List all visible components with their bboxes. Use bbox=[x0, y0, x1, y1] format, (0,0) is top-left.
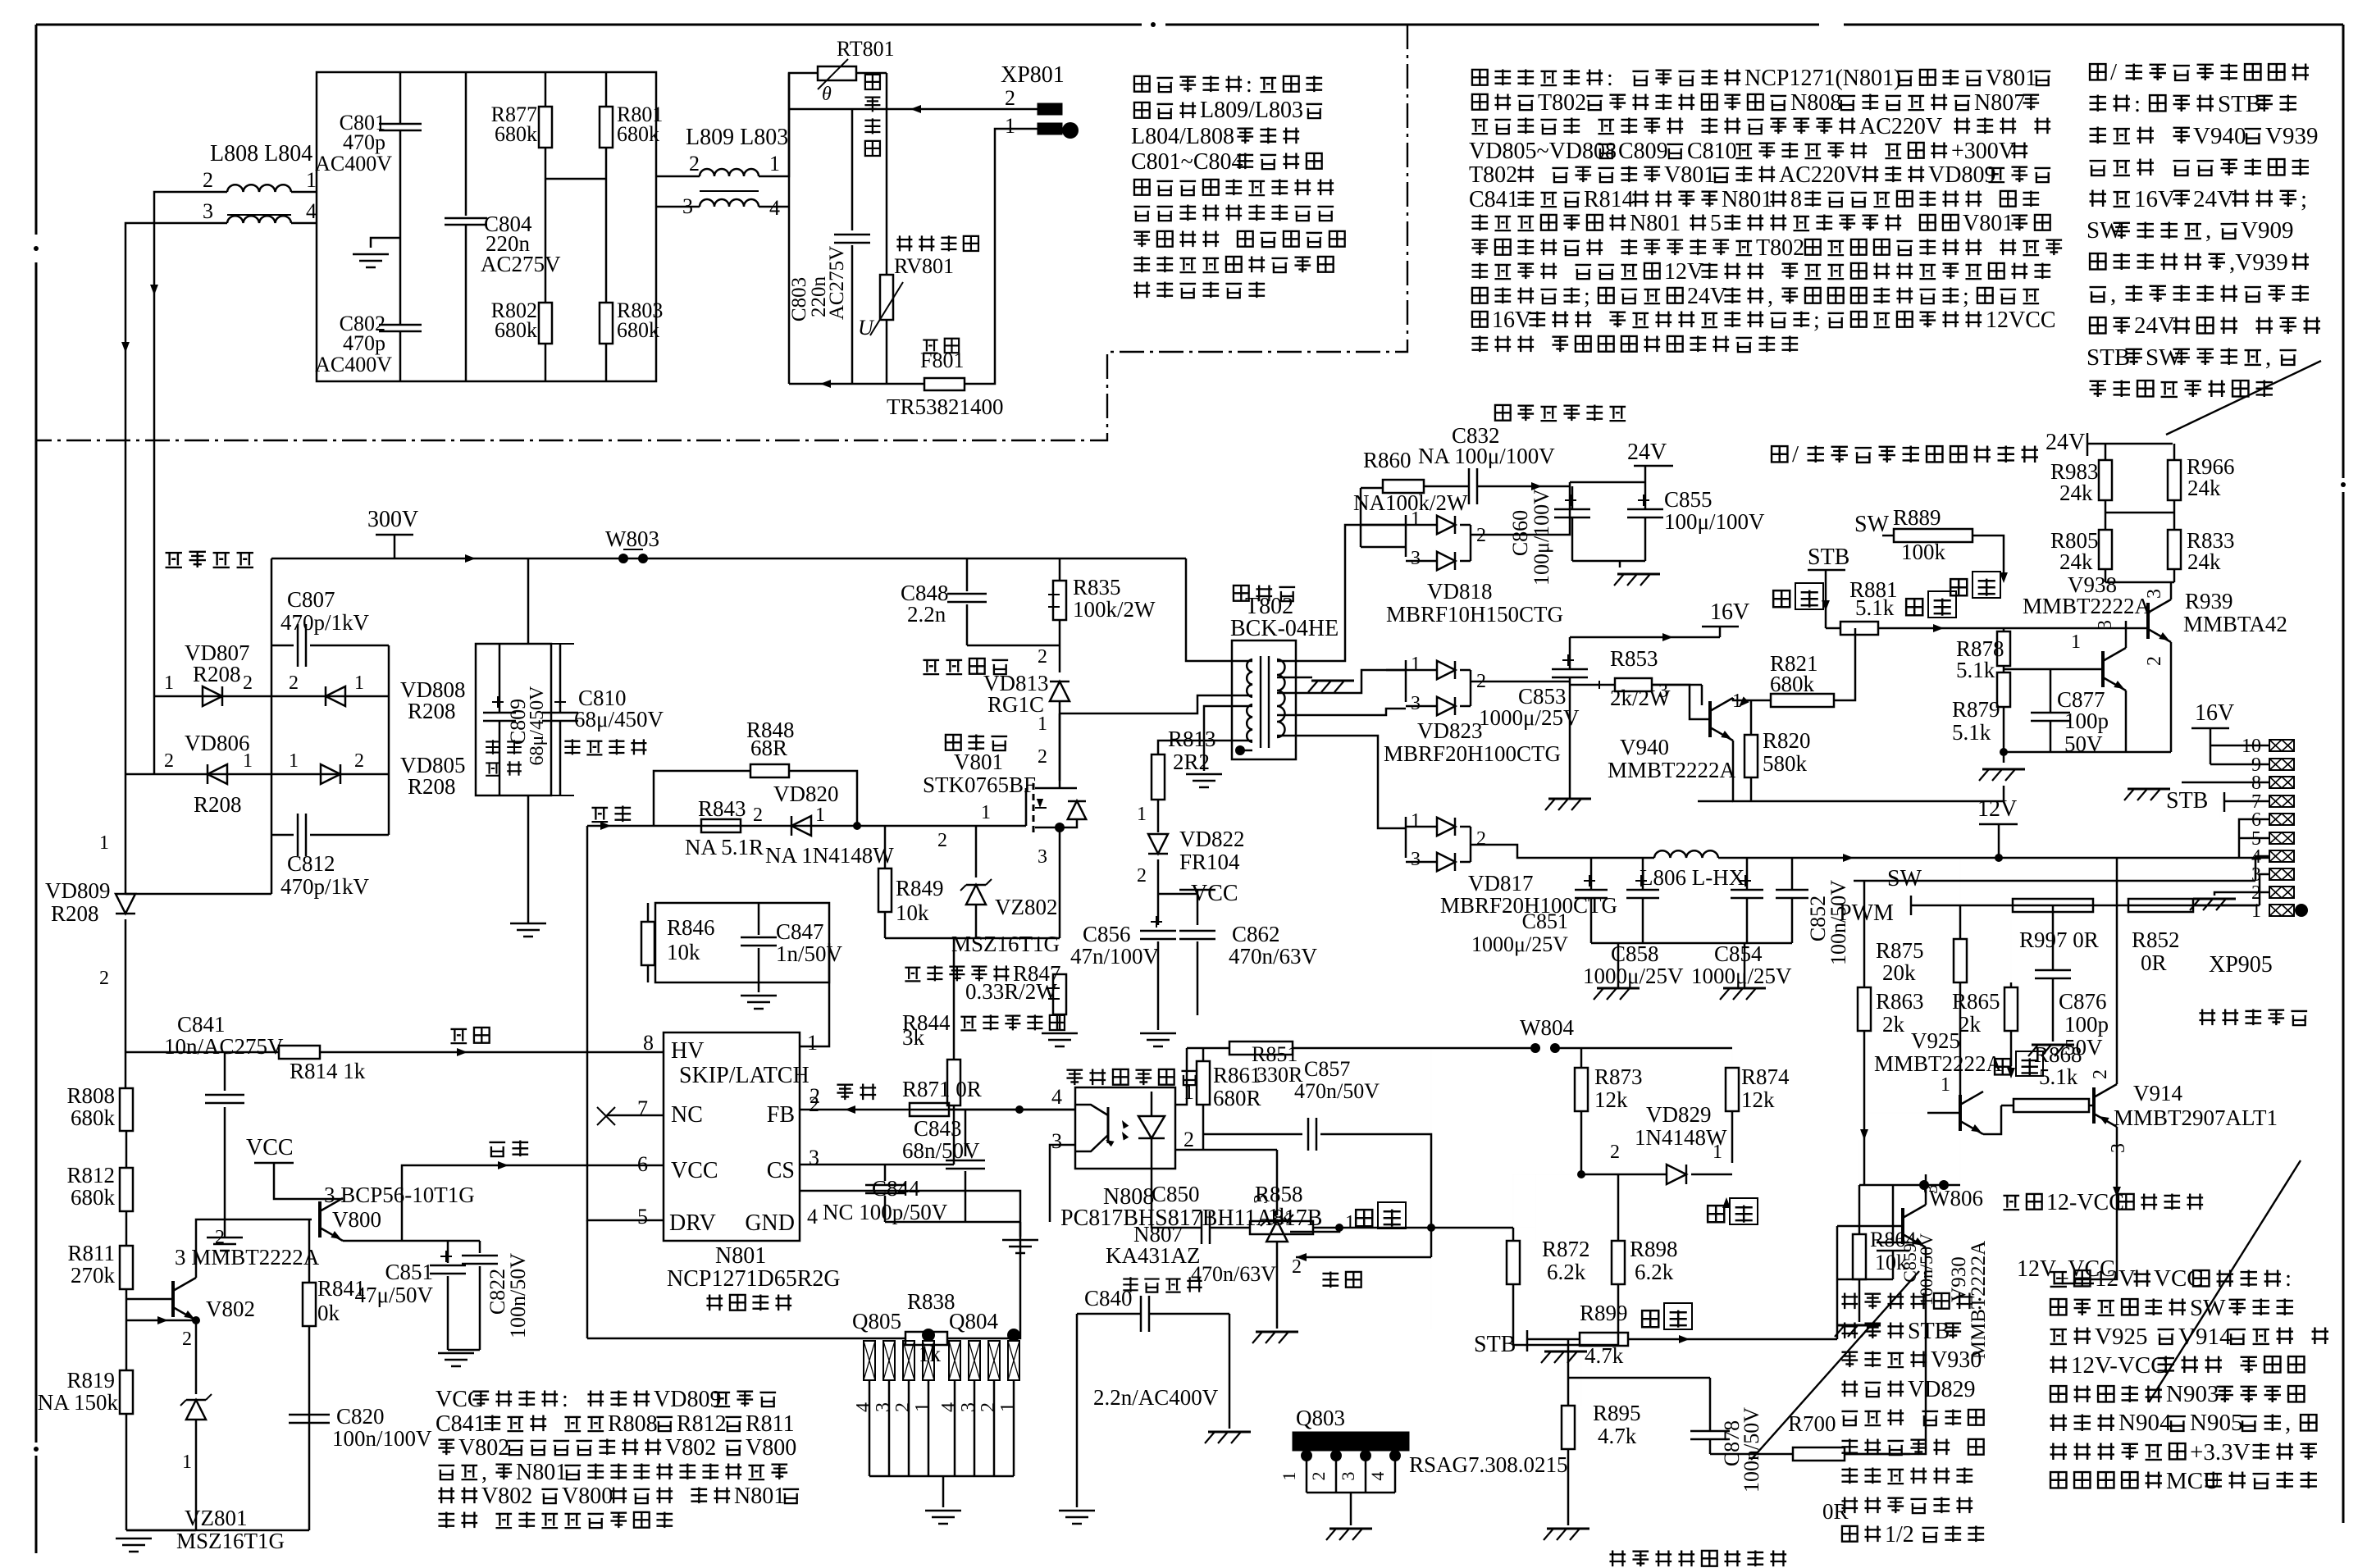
svg-text:VZ802: VZ802 bbox=[995, 895, 1058, 919]
svg-text:R852: R852 bbox=[2132, 928, 2180, 952]
svg-text:12k: 12k bbox=[1594, 1087, 1628, 1112]
svg-text:2: 2 bbox=[243, 672, 253, 694]
current limiting resistor label 限流电阻 bbox=[864, 75, 880, 156]
svg-text:680k: 680k bbox=[617, 122, 659, 146]
wire V938 collector bbox=[2125, 621, 2128, 648]
svg-text:16V: 16V bbox=[2195, 700, 2234, 726]
svg-text:100n/50V: 100n/50V bbox=[506, 1253, 530, 1338]
svg-text:12V-VCC: 12V-VCC bbox=[2071, 1352, 2167, 1379]
svg-text:3: 3 bbox=[1921, 1184, 1942, 1194]
svg-text:V940: V940 bbox=[1620, 735, 1669, 759]
svg-text:C855: C855 bbox=[1664, 487, 1713, 512]
wire V939 collector to R833 bbox=[2170, 582, 2173, 599]
svg-text:5.1k: 5.1k bbox=[1855, 595, 1895, 620]
wire pin4 bbox=[949, 1109, 1075, 1111]
svg-text:R838: R838 bbox=[907, 1289, 955, 1314]
svg-text:,: , bbox=[481, 1460, 487, 1485]
svg-text:/: / bbox=[1792, 441, 1799, 467]
svg-text:;: ; bbox=[1963, 284, 1969, 309]
svg-text:2: 2 bbox=[1137, 865, 1147, 887]
svg-text:R873: R873 bbox=[1594, 1064, 1643, 1089]
svg-text:R208: R208 bbox=[51, 901, 99, 926]
svg-text:V801: V801 bbox=[1963, 211, 2014, 236]
svg-text:2: 2 bbox=[753, 805, 763, 826]
wire pin3 bbox=[1050, 1145, 1075, 1222]
svg-text:VD809: VD809 bbox=[654, 1387, 721, 1412]
svg-text:N904: N904 bbox=[2118, 1410, 2172, 1436]
svg-text:68R: 68R bbox=[750, 736, 787, 760]
svg-text:3 BCP56-10T1G: 3 BCP56-10T1G bbox=[324, 1183, 475, 1207]
svg-text:5.1k: 5.1k bbox=[1952, 720, 1991, 745]
svg-text:R814: R814 bbox=[1584, 187, 1634, 212]
svg-text:VD822: VD822 bbox=[1179, 827, 1245, 851]
wire V940 collector to R821 node bbox=[1733, 698, 1751, 700]
svg-text:,: , bbox=[2285, 1410, 2291, 1436]
svg-text:R813: R813 bbox=[1168, 727, 1216, 751]
svg-text:VD809: VD809 bbox=[45, 878, 111, 903]
wire L803 pin4 to RT801 branch bbox=[759, 206, 789, 208]
svg-text:C810: C810 bbox=[1687, 139, 1737, 164]
svg-text:C844: C844 bbox=[872, 1176, 920, 1201]
gate drive wire bbox=[587, 825, 1026, 827]
wire V800 emitter rail bbox=[343, 1240, 480, 1242]
svg-text:1: 1 bbox=[1038, 713, 1047, 735]
svg-text:L804/L808: L804/L808 bbox=[1131, 124, 1234, 149]
svg-text:470n/63V: 470n/63V bbox=[1229, 944, 1318, 969]
hot-cold isolation boundary (dash-dot) bbox=[36, 25, 1407, 440]
wire V930 base bbox=[1837, 1225, 1903, 1228]
svg-text:470n/63V: 470n/63V bbox=[1191, 1262, 1276, 1286]
chassis ground C853 bbox=[1548, 798, 1591, 800]
svg-text:1: 1 bbox=[997, 1402, 1019, 1412]
svg-text:4: 4 bbox=[938, 1402, 960, 1412]
svg-text:1000μ/25V: 1000μ/25V bbox=[1471, 932, 1568, 956]
label 二次整流滤波 bbox=[1495, 404, 1626, 421]
label R844 过电流取样 bbox=[902, 1010, 1065, 1035]
svg-text:C812: C812 bbox=[287, 851, 335, 876]
svg-text:C851: C851 bbox=[1522, 909, 1568, 933]
wire box to L809 pin2 bbox=[656, 175, 700, 178]
wire AC2 to bridge bottom bbox=[125, 893, 271, 896]
ground bottom left bbox=[126, 1529, 196, 1532]
svg-text:/: / bbox=[2110, 59, 2118, 85]
svg-text:V802: V802 bbox=[665, 1435, 716, 1461]
svg-text:R811: R811 bbox=[67, 1241, 115, 1265]
Q805/Q804 common rail bbox=[869, 1475, 1014, 1478]
svg-text:12V: 12V bbox=[2095, 1265, 2136, 1292]
svg-text:1: 1 bbox=[99, 832, 109, 854]
svg-text:10k: 10k bbox=[667, 940, 700, 964]
wire V914 emitter up to 12V bbox=[2116, 858, 2118, 1084]
text paragraph: switching power supply description bbox=[1472, 66, 2050, 91]
svg-text:;: ; bbox=[2301, 186, 2307, 212]
switch mark near V925 bbox=[1995, 1059, 2010, 1074]
svg-text:2: 2 bbox=[1005, 86, 1015, 110]
svg-text:,: , bbox=[1767, 284, 1773, 309]
svg-text:VD817: VD817 bbox=[1468, 871, 1534, 896]
svg-text:R849: R849 bbox=[896, 876, 944, 900]
svg-text:N801: N801 bbox=[1630, 211, 1681, 236]
300V bus wire bbox=[271, 558, 1186, 560]
svg-text:RG1C: RG1C bbox=[987, 692, 1044, 717]
svg-text:MMBT2222A: MMBT2222A bbox=[2023, 594, 2151, 618]
svg-text:24k: 24k bbox=[2187, 549, 2221, 574]
svg-text:2: 2 bbox=[354, 750, 364, 772]
wire L804 pin4 to box bbox=[291, 222, 317, 225]
svg-text:V930: V930 bbox=[1931, 1347, 1982, 1373]
callout diagonal to V914 bbox=[2149, 1160, 2301, 1402]
svg-text:1: 1 bbox=[807, 1031, 818, 1055]
bridge AC node rail bbox=[153, 696, 156, 774]
svg-text:N903: N903 bbox=[2166, 1381, 2219, 1407]
label 供电 bbox=[489, 1140, 528, 1156]
svg-text:8: 8 bbox=[643, 1031, 654, 1055]
svg-text:2: 2 bbox=[978, 1402, 999, 1412]
svg-text:47n/100V: 47n/100V bbox=[1070, 944, 1160, 969]
svg-text:V801: V801 bbox=[1986, 66, 2036, 91]
svg-text:0k: 0k bbox=[317, 1301, 340, 1325]
emitter/C877 bottom rail bbox=[2004, 751, 2171, 754]
varistor RV801 bbox=[896, 235, 978, 251]
capacitor C810 (filter) bbox=[542, 712, 578, 714]
svg-text:V800: V800 bbox=[746, 1435, 796, 1461]
svg-text:8: 8 bbox=[1790, 187, 1802, 212]
svg-text:R872: R872 bbox=[1542, 1237, 1590, 1261]
svg-text:3: 3 bbox=[873, 1402, 894, 1412]
svg-text:3: 3 bbox=[809, 1146, 819, 1169]
wire box to L803 pin3 bbox=[656, 206, 700, 208]
text paragraph: VCC regulator description bbox=[436, 1387, 776, 1412]
svg-text:1: 1 bbox=[815, 805, 825, 826]
switch mark V930 collector bbox=[1708, 1206, 1724, 1222]
svg-text:R208: R208 bbox=[408, 699, 456, 723]
wire V925 emitter bbox=[1983, 1105, 2001, 1134]
svg-text:,: , bbox=[2110, 281, 2116, 308]
switch mark top bbox=[1950, 579, 1967, 595]
svg-text:1000μ/25V: 1000μ/25V bbox=[1479, 705, 1580, 730]
svg-text:6.2k: 6.2k bbox=[1635, 1260, 1674, 1284]
svg-text:470p: 470p bbox=[343, 331, 385, 355]
svg-text:1: 1 bbox=[164, 672, 174, 694]
svg-text:C809: C809 bbox=[1618, 139, 1668, 164]
svg-text:2: 2 bbox=[2090, 1069, 2111, 1079]
ground of main filter bbox=[510, 923, 546, 925]
svg-text:2: 2 bbox=[1476, 828, 1486, 850]
svg-text:3: 3 bbox=[1338, 1472, 1358, 1481]
svg-text:1: 1 bbox=[1411, 508, 1421, 530]
pin8 ground bbox=[2182, 782, 2269, 784]
svg-text:TR53821400: TR53821400 bbox=[887, 394, 1004, 419]
svg-text:270k: 270k bbox=[71, 1263, 116, 1288]
page border left bbox=[35, 25, 38, 235]
svg-text:470p/1kV: 470p/1kV bbox=[280, 610, 370, 635]
filter cap box bbox=[476, 644, 551, 795]
SW wire bbox=[1854, 880, 2255, 882]
svg-text:1: 1 bbox=[243, 750, 253, 772]
svg-text:2: 2 bbox=[289, 672, 299, 694]
ground rail R872/R898 bbox=[1513, 1344, 1618, 1347]
svg-text:5: 5 bbox=[637, 1205, 648, 1228]
svg-text:3: 3 bbox=[1411, 849, 1421, 870]
svg-text:3: 3 bbox=[958, 1402, 979, 1412]
wire sampling rail to R872 bbox=[1431, 1227, 1513, 1229]
svg-text:T802: T802 bbox=[1469, 162, 1517, 188]
svg-text:C862: C862 bbox=[1232, 922, 1280, 946]
diode VD818 a bbox=[1437, 516, 1455, 534]
svg-text:16V: 16V bbox=[1710, 599, 1749, 625]
wire R853 to V940 base bbox=[1652, 684, 1702, 686]
svg-text:R846: R846 bbox=[667, 915, 715, 940]
svg-text:R853: R853 bbox=[1610, 646, 1658, 671]
svg-text:4: 4 bbox=[807, 1205, 818, 1228]
svg-text:θ: θ bbox=[822, 84, 832, 105]
capacitor C854 bbox=[1731, 889, 1763, 891]
svg-text:C850: C850 bbox=[1152, 1182, 1200, 1206]
label 激励 bbox=[591, 805, 631, 822]
svg-text::: : bbox=[2134, 91, 2141, 117]
svg-text:MSZ16T1G: MSZ16T1G bbox=[176, 1529, 285, 1553]
wire pin1 up bbox=[1175, 1048, 1187, 1105]
svg-text:R863: R863 bbox=[1876, 989, 1924, 1014]
svg-text:300V: 300V bbox=[367, 507, 418, 532]
svg-text:R889: R889 bbox=[1893, 505, 1941, 530]
svg-text:100k: 100k bbox=[1901, 540, 1946, 564]
T802 phase dot bbox=[1235, 745, 1245, 755]
wire R872/R898 column bbox=[1430, 1257, 1432, 1329]
svg-text:C803: C803 bbox=[788, 277, 810, 321]
svg-text:1: 1 bbox=[182, 1452, 192, 1473]
svg-text:5.1k: 5.1k bbox=[2039, 1064, 2078, 1089]
wire V938 emitter bbox=[2125, 691, 2128, 752]
optocoupler N808 box bbox=[1075, 1087, 1175, 1169]
svg-text:C841: C841 bbox=[177, 1012, 226, 1037]
wire V939 base rail bbox=[2126, 620, 2148, 622]
svg-text:580k: 580k bbox=[1763, 751, 1808, 776]
label 待机降压控制电路 bbox=[1609, 1550, 1786, 1566]
svg-text:4: 4 bbox=[769, 196, 780, 220]
svg-text:Q804: Q804 bbox=[949, 1309, 998, 1333]
svg-text:1/2: 1/2 bbox=[1885, 1522, 1914, 1547]
svg-text:MMBT2222A: MMBT2222A bbox=[1608, 758, 1736, 782]
svg-text:VD809: VD809 bbox=[1928, 162, 1995, 188]
svg-text:VZ801: VZ801 bbox=[185, 1506, 248, 1530]
svg-text:47μ/50V: 47μ/50V bbox=[355, 1283, 434, 1307]
wire V939 emitter down bbox=[2170, 642, 2173, 752]
svg-text:R808: R808 bbox=[66, 1083, 115, 1108]
svg-text:680k: 680k bbox=[495, 122, 537, 146]
svg-text:20k: 20k bbox=[1882, 960, 1916, 985]
wire V802 collector to base of V800 bbox=[196, 1219, 312, 1278]
svg-text:V800: V800 bbox=[562, 1484, 613, 1509]
svg-text:1: 1 bbox=[354, 672, 364, 694]
svg-text:3k: 3k bbox=[902, 1025, 925, 1050]
wire fuse to XP801 pin1 bbox=[965, 129, 1038, 384]
N808 LED bbox=[1138, 1116, 1165, 1138]
svg-text:2k: 2k bbox=[1882, 1012, 1905, 1037]
svg-text:NA 100μ/100V: NA 100μ/100V bbox=[1418, 444, 1555, 468]
wire node vertical bbox=[788, 73, 791, 384]
wire L809 pin1 up to RT801 bbox=[759, 73, 818, 176]
wire primary bottom to drain bbox=[1060, 695, 1252, 713]
svg-text:V940: V940 bbox=[2193, 123, 2246, 149]
svg-text:CS: CS bbox=[767, 1158, 795, 1183]
wire C847 to ground bbox=[758, 982, 760, 992]
T802 core bbox=[1260, 656, 1261, 748]
wire R877-R801 crossbar bbox=[545, 178, 606, 180]
ground for C801/C802 midpoint bbox=[371, 238, 400, 248]
svg-text:16V: 16V bbox=[2134, 186, 2175, 212]
svg-text:VD829: VD829 bbox=[1908, 1377, 1975, 1402]
ground C851/C822 bbox=[448, 1349, 480, 1351]
svg-text:3: 3 bbox=[1038, 846, 1047, 868]
chassis ground below rail bbox=[2003, 752, 2005, 763]
svg-text:VD820: VD820 bbox=[773, 782, 839, 806]
wire CS to C844 bbox=[884, 1164, 887, 1166]
svg-text:N801: N801 bbox=[734, 1484, 785, 1509]
svg-text:12V: 12V bbox=[1977, 796, 2017, 822]
svg-text:2: 2 bbox=[2144, 656, 2165, 666]
svg-text:W803: W803 bbox=[605, 526, 659, 551]
wire pin2 right bbox=[1175, 1149, 1277, 1151]
svg-text:AC400V: AC400V bbox=[315, 353, 392, 376]
R805/R833 bottom rail bbox=[2105, 581, 2174, 584]
wire sampling rail down bbox=[1430, 1228, 1433, 1257]
svg-text:4: 4 bbox=[1051, 1085, 1062, 1109]
svg-text:7: 7 bbox=[637, 1096, 648, 1120]
svg-text:MBRF10H150CTG: MBRF10H150CTG bbox=[1386, 602, 1563, 627]
svg-text:1n/50V: 1n/50V bbox=[776, 941, 843, 966]
svg-text:AC400V: AC400V bbox=[315, 152, 392, 175]
svg-text:R865: R865 bbox=[1952, 989, 2000, 1014]
wire VD823 out to 16V rail bbox=[1471, 681, 1570, 683]
svg-text:2: 2 bbox=[203, 168, 213, 192]
R846/C847 box bbox=[655, 903, 829, 982]
svg-text:3: 3 bbox=[2144, 589, 2165, 599]
svg-text:R208: R208 bbox=[194, 792, 242, 817]
NC pin7 with x mark bbox=[607, 1114, 664, 1117]
svg-text:R812: R812 bbox=[677, 1411, 727, 1437]
svg-text:6: 6 bbox=[637, 1152, 648, 1176]
callout line from paragraph to 24V resistor network bbox=[2166, 361, 2321, 435]
svg-text::: : bbox=[1607, 66, 1613, 91]
callout diagonal to V930 bbox=[1751, 1271, 1919, 1460]
svg-text:Q805: Q805 bbox=[852, 1309, 901, 1333]
pin2 ground bbox=[2214, 892, 2269, 896]
svg-text:V925: V925 bbox=[1911, 1028, 1960, 1053]
svg-text:AC275V: AC275V bbox=[826, 246, 848, 320]
svg-text:24k: 24k bbox=[2187, 476, 2221, 500]
svg-text:NA 1N4148W: NA 1N4148W bbox=[765, 843, 894, 868]
ground rail for output caps bbox=[1591, 942, 1792, 945]
svg-text:RT801: RT801 bbox=[837, 37, 895, 61]
wire V930 emitter bbox=[1845, 1247, 1926, 1454]
wire base of V938 bbox=[2004, 668, 2103, 671]
svg-text:R808: R808 bbox=[608, 1411, 658, 1437]
svg-text:2: 2 bbox=[1183, 1128, 1194, 1151]
svg-text:12VCC: 12VCC bbox=[1986, 308, 2056, 333]
svg-text:1: 1 bbox=[1005, 114, 1015, 138]
svg-text:100p: 100p bbox=[2064, 1012, 2109, 1037]
inductor L809 L803 (common-mode choke) bbox=[686, 125, 788, 150]
svg-text:C876: C876 bbox=[2059, 989, 2107, 1014]
transformer T802 label bbox=[1234, 585, 1295, 601]
svg-text:MCU: MCU bbox=[2166, 1468, 2220, 1494]
svg-text:Q803: Q803 bbox=[1296, 1406, 1345, 1430]
svg-text:2.2n/AC400V: 2.2n/AC400V bbox=[1093, 1385, 1219, 1410]
svg-text:1000μ/25V: 1000μ/25V bbox=[1691, 964, 1792, 988]
svg-text:C807: C807 bbox=[287, 587, 335, 612]
svg-text:FB: FB bbox=[767, 1102, 795, 1128]
24V rail bbox=[1570, 481, 1645, 484]
T802 secondary taps bbox=[1277, 525, 1406, 661]
label 启动 bbox=[450, 1028, 489, 1043]
svg-text:68μ/450V: 68μ/450V bbox=[574, 707, 664, 732]
EMI filter box outline bbox=[317, 72, 656, 381]
capacitor C858 bbox=[1626, 889, 1659, 891]
svg-text:VD823: VD823 bbox=[1417, 718, 1483, 743]
svg-text:R820: R820 bbox=[1763, 728, 1811, 753]
svg-text:STB: STB bbox=[1474, 1332, 1516, 1357]
svg-text:MMBTA42: MMBTA42 bbox=[2183, 612, 2287, 636]
svg-text:R875: R875 bbox=[1876, 938, 1924, 963]
svg-text:0R: 0R bbox=[2141, 950, 2167, 975]
svg-text:2: 2 bbox=[99, 968, 109, 989]
svg-text:V939: V939 bbox=[2265, 123, 2318, 149]
wire R878 column bbox=[2003, 628, 2005, 631]
svg-text:2: 2 bbox=[1292, 1256, 1302, 1278]
svg-text:24V: 24V bbox=[2193, 186, 2234, 212]
svg-text:V802: V802 bbox=[206, 1297, 255, 1321]
svg-text:C854: C854 bbox=[1714, 941, 1763, 966]
svg-text:XP905: XP905 bbox=[2209, 952, 2273, 978]
svg-text:;: ; bbox=[1813, 308, 1820, 333]
svg-text:VCC: VCC bbox=[671, 1158, 718, 1183]
svg-text:10k: 10k bbox=[896, 900, 929, 925]
svg-text:2: 2 bbox=[1038, 646, 1047, 668]
svg-text:2: 2 bbox=[689, 152, 700, 175]
svg-text:C801~C804: C801~C804 bbox=[1131, 149, 1243, 175]
svg-text:470p/1kV: 470p/1kV bbox=[280, 874, 370, 899]
svg-text:T802: T802 bbox=[1538, 90, 1586, 116]
svg-text::: : bbox=[1977, 1289, 1983, 1315]
svg-text:N807: N807 bbox=[1974, 90, 2025, 116]
switch mark sampling bbox=[1356, 1210, 1372, 1226]
svg-text::: : bbox=[562, 1387, 568, 1412]
svg-text:PWM: PWM bbox=[1839, 900, 1894, 926]
svg-text:STB: STB bbox=[1908, 1319, 1950, 1344]
svg-text:V802: V802 bbox=[458, 1435, 509, 1461]
svg-text:2: 2 bbox=[1038, 746, 1047, 768]
label 开/关机负载电阻控制电路 bbox=[1772, 441, 2038, 467]
wire VCC node bbox=[1158, 893, 1197, 896]
svg-text:R700: R700 bbox=[1788, 1411, 1836, 1436]
svg-text:100p: 100p bbox=[2064, 709, 2109, 733]
12V rail wire bbox=[1471, 845, 1654, 858]
svg-text:470p: 470p bbox=[343, 130, 385, 154]
wire V800 emitter to VCC/供电 bbox=[402, 1165, 664, 1241]
svg-text:4.7k: 4.7k bbox=[1585, 1343, 1624, 1368]
label 滤波电容 right bbox=[564, 739, 646, 754]
svg-text:L809/L803: L809/L803 bbox=[1200, 98, 1303, 123]
svg-text:,V939: ,V939 bbox=[2229, 249, 2288, 276]
wire VD818 bracket bbox=[1360, 488, 1362, 547]
wire pin8 entering bbox=[663, 1051, 665, 1054]
svg-text:V925: V925 bbox=[2095, 1324, 2147, 1350]
MOSFET body diode bbox=[1060, 787, 1077, 790]
svg-text:+300V: +300V bbox=[1951, 139, 2015, 164]
svg-text:AC275V: AC275V bbox=[481, 252, 561, 276]
svg-text:R835: R835 bbox=[1073, 575, 1121, 599]
